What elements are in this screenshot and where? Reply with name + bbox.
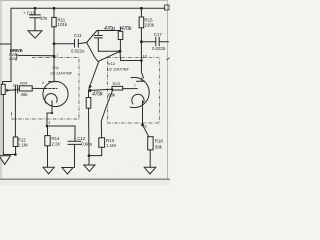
svg-text:V11: V11 xyxy=(52,65,60,70)
svg-text:C17: C17 xyxy=(154,32,163,37)
svg-text:101k: 101k xyxy=(58,22,68,27)
svg-text:3: 3 xyxy=(48,121,50,125)
svg-text:1.1M: 1.1M xyxy=(18,143,28,148)
svg-text:1: 1 xyxy=(56,54,58,58)
svg-text:39k: 39k xyxy=(155,145,163,150)
svg-text:C11: C11 xyxy=(74,33,82,38)
svg-text:470k: 470k xyxy=(92,91,103,97)
svg-text:R24: R24 xyxy=(20,80,28,85)
svg-text:8: 8 xyxy=(145,124,147,128)
svg-text:R12: R12 xyxy=(18,137,27,142)
svg-text:+ C12: + C12 xyxy=(74,136,86,141)
svg-text:0.022u: 0.022u xyxy=(71,48,85,53)
svg-text:220k: 220k xyxy=(145,22,155,27)
svg-text:16: 16 xyxy=(143,54,147,58)
svg-text:R14: R14 xyxy=(52,136,61,141)
svg-text:2.2k: 2.2k xyxy=(52,142,61,147)
svg-text:2: 2 xyxy=(42,81,44,85)
svg-text:10u: 10u xyxy=(40,16,48,21)
svg-text:10: 10 xyxy=(13,83,17,87)
svg-text:1.1M: 1.1M xyxy=(106,143,116,148)
svg-text:+ C13: + C13 xyxy=(23,11,35,16)
svg-text:470p: 470p xyxy=(104,26,115,32)
svg-text:R23: R23 xyxy=(113,81,121,86)
svg-text:1/2 12AX7B#: 1/2 12AX7B# xyxy=(107,68,130,72)
svg-text:V12: V12 xyxy=(108,61,116,66)
svg-text:0.0226: 0.0226 xyxy=(152,46,166,51)
svg-text:R18: R18 xyxy=(155,139,164,144)
svg-text:68k: 68k xyxy=(108,93,116,98)
svg-text:46k: 46k xyxy=(21,92,29,97)
svg-text:470k: 470k xyxy=(121,26,132,32)
svg-text:1/2 12AX7B#: 1/2 12AX7B# xyxy=(50,72,73,76)
svg-text:0.68u: 0.68u xyxy=(81,142,93,147)
svg-text:7: 7 xyxy=(134,84,136,88)
